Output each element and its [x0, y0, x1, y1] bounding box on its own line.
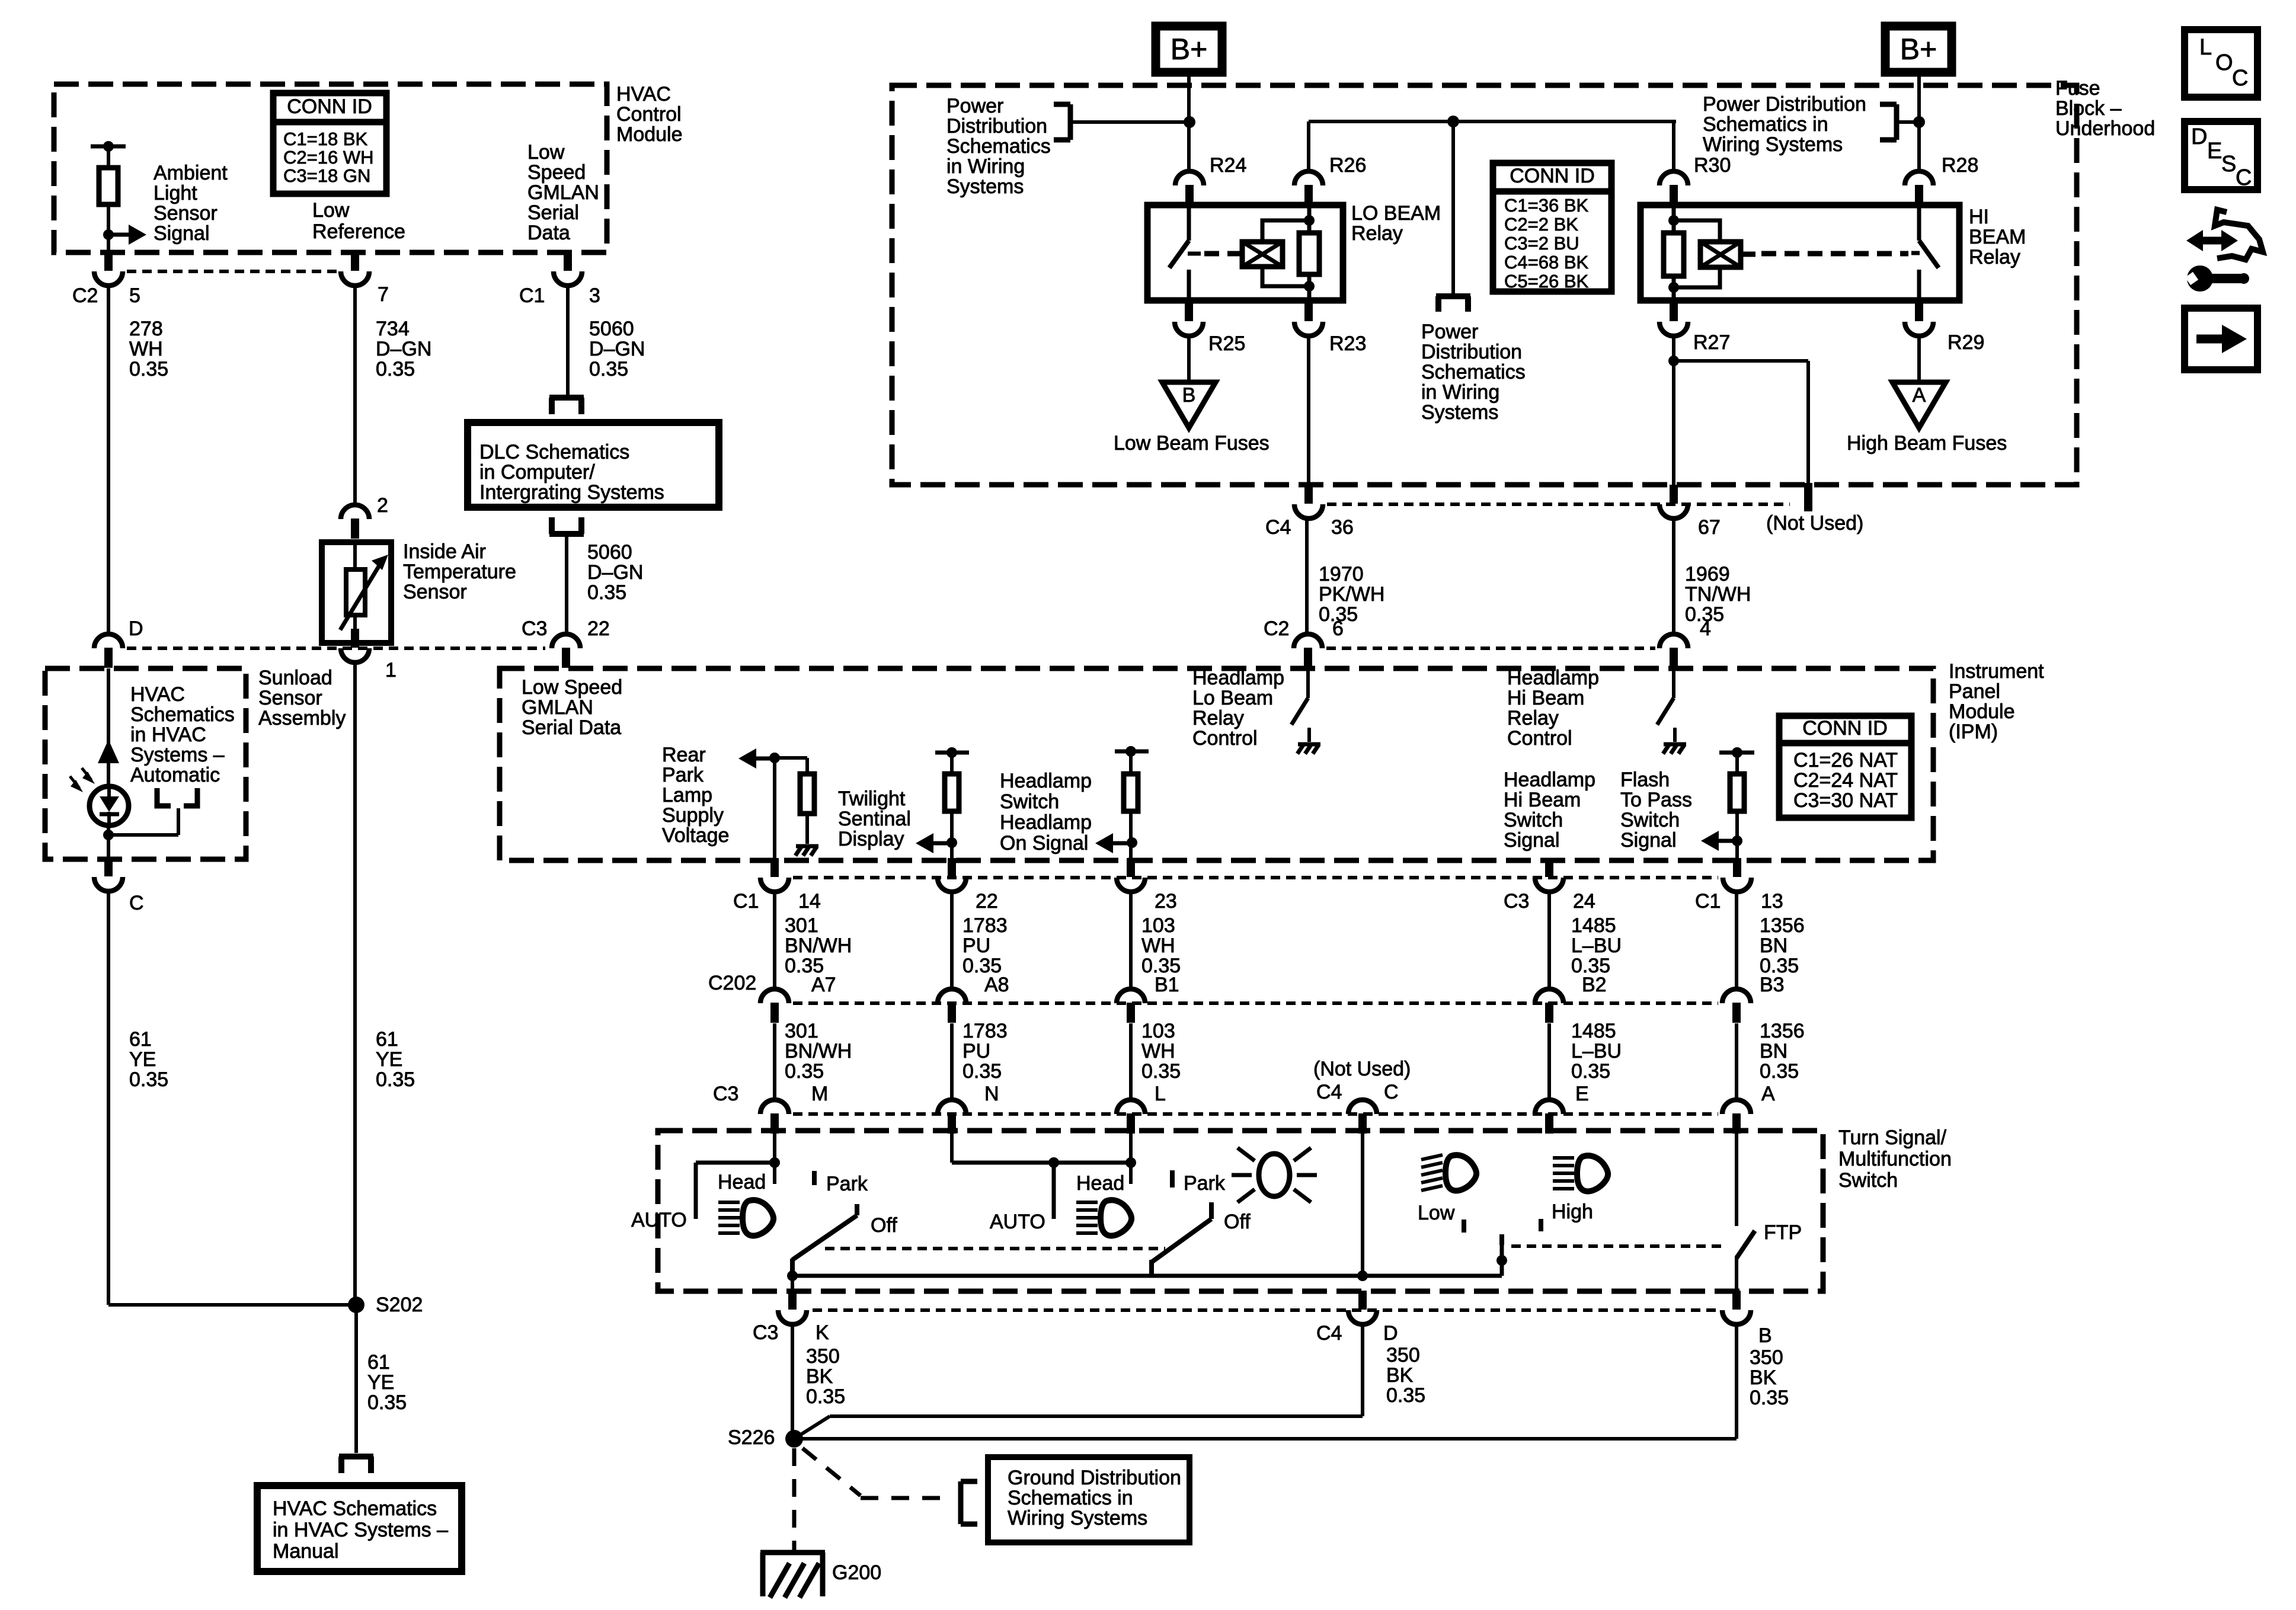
relay coil (lo beam) — [1242, 242, 1283, 267]
svg-text:61: 61 — [367, 1351, 390, 1374]
svg-text:B+: B+ — [1171, 33, 1208, 66]
wire label 1970 PK/WH 0.35 — [1319, 563, 1384, 626]
svg-text:C202: C202 — [708, 972, 756, 994]
hi beam relay control driver switch — [1657, 668, 1675, 742]
rear park lamp supply driver — [738, 748, 807, 774]
svg-text:350: 350 — [1386, 1344, 1420, 1366]
relay link dashed (lo beam) — [1204, 251, 1240, 257]
wire into C202 pin A7 — [773, 892, 776, 989]
label S202 — [376, 1294, 423, 1316]
wire branch to not-used stub — [1674, 361, 1808, 484]
svg-text:C: C — [2236, 165, 2252, 190]
label Head 1 — [718, 1171, 766, 1193]
label Headlamp Lo Beam Relay Control — [1192, 667, 1284, 750]
connector pin N (multifunction switch) — [938, 1100, 966, 1134]
svg-text:D–GN: D–GN — [587, 561, 643, 584]
node - hi beam coil top — [1668, 215, 1679, 226]
icon DESC box — [2185, 121, 2257, 190]
pin label L — [1155, 1083, 1166, 1105]
Park contact 2 — [1170, 1170, 1175, 1188]
AUTO contact 1 — [694, 1163, 698, 1219]
svg-text:Display: Display — [838, 828, 904, 850]
svg-text:C: C — [129, 892, 144, 914]
ground (hi beam relay control) — [1663, 744, 1686, 754]
low beam icon — [1421, 1155, 1476, 1190]
svg-text:L–BU: L–BU — [1571, 934, 1622, 957]
svg-text:BN: BN — [1760, 934, 1787, 957]
connector R25 — [1175, 302, 1203, 336]
svg-text:Switch: Switch — [1504, 809, 1563, 831]
svg-text:Data: Data — [527, 222, 570, 244]
svg-text:Instrument: Instrument — [1949, 660, 2044, 683]
node + arrow (headlamp on signal) — [1095, 833, 1137, 853]
connector pin 1 (inside air temp sensor) — [341, 629, 369, 662]
svg-text:WH: WH — [1141, 1040, 1175, 1062]
svg-text:D–GN: D–GN — [376, 338, 431, 360]
wire into C202 pin B3 — [1735, 892, 1738, 989]
pin labels C3 K — [753, 1321, 829, 1344]
svg-text:1485: 1485 — [1571, 1020, 1616, 1042]
svg-text:C3: C3 — [522, 617, 547, 640]
connector D (sunload sensor) — [94, 634, 123, 668]
svg-text:0.35: 0.35 — [1685, 603, 1724, 626]
svg-text:Block –: Block – — [2055, 97, 2122, 120]
pin label R27 — [1693, 331, 1730, 354]
wire label 301 BN/WH 0.35 (upper) — [785, 914, 852, 977]
svg-text:Schematics: Schematics — [946, 135, 1051, 158]
pin labels 14 — [733, 890, 821, 913]
wire 278 WH (C2-5 to sunload D) — [107, 286, 110, 634]
svg-text:Module: Module — [616, 123, 683, 146]
label C3 (switch) — [713, 1083, 738, 1105]
svg-text:FTP: FTP — [1764, 1221, 1802, 1244]
svg-text:C3: C3 — [753, 1321, 778, 1344]
svg-text:3: 3 — [589, 284, 600, 307]
pin label E — [1575, 1083, 1589, 1105]
wire label 278 WH 0.35 — [129, 318, 168, 380]
svg-text:C5=26 BK: C5=26 BK — [1504, 271, 1589, 292]
svg-text:R25: R25 — [1208, 332, 1245, 355]
svg-text:23: 23 — [1155, 890, 1177, 913]
svg-text:5060: 5060 — [587, 541, 632, 564]
svg-text:278: 278 — [129, 318, 163, 340]
HI BEAM Relay box — [1641, 205, 1959, 300]
svg-text:BK: BK — [1750, 1366, 1777, 1389]
svg-text:Twilight: Twilight — [838, 788, 906, 810]
label (Not Used) fuse block — [1766, 512, 1863, 534]
svg-text:C4=68 BK: C4=68 BK — [1504, 252, 1589, 273]
connector R23 — [1294, 302, 1323, 336]
node - R27 branch junction — [1668, 356, 1679, 366]
pin label R23 — [1329, 332, 1366, 355]
svg-text:S226: S226 — [728, 1426, 775, 1449]
svg-text:BK: BK — [806, 1365, 833, 1388]
wire into switch pin E — [1547, 1023, 1551, 1100]
svg-text:61: 61 — [129, 1028, 152, 1051]
lo beam relay control driver switch — [1291, 668, 1309, 742]
Turn Signal/Multifunction Switch dashed box — [658, 1131, 1823, 1291]
svg-text:Sunload: Sunload — [258, 667, 332, 689]
pin label D — [129, 617, 143, 640]
svg-text:G200: G200 — [832, 1561, 881, 1584]
Off switch blade 1 — [792, 1204, 857, 1260]
svg-text:O: O — [2215, 50, 2233, 75]
pin label R30 — [1694, 154, 1731, 177]
svg-text:High: High — [1552, 1201, 1593, 1223]
svg-text:Park: Park — [1184, 1172, 1226, 1195]
label Inside Air Temperature Sensor — [403, 540, 516, 603]
svg-text:L: L — [2199, 35, 2212, 60]
dashed wire S226 to ground distribution — [802, 1448, 944, 1498]
svg-text:0.35: 0.35 — [367, 1391, 407, 1414]
svg-text:A7: A7 — [811, 974, 836, 996]
svg-text:Schematics: Schematics — [130, 703, 235, 726]
HVAC Control Module dashed box — [54, 84, 607, 252]
ground G200 — [760, 1553, 825, 1598]
connector row line D-1-22 — [127, 646, 545, 650]
connector row line C2 (IPM top) — [1326, 646, 1655, 650]
svg-text:7: 7 — [378, 283, 389, 306]
label Instrument Panel Module (IPM) — [1949, 660, 2044, 743]
wire label 350 BK 0.35 (B) — [1750, 1346, 1789, 1409]
svg-text:Low Beam Fuses: Low Beam Fuses — [1114, 432, 1269, 454]
wire L into switch 2 — [1129, 1134, 1133, 1184]
Sunload Sensor Assembly dashed box — [45, 668, 246, 859]
connector pin 2 (inside air temp sensor) — [341, 505, 369, 539]
relay resistor (hi beam) — [1664, 205, 1684, 300]
svg-text:0.35: 0.35 — [1571, 1060, 1610, 1083]
svg-text:22: 22 — [587, 617, 610, 640]
pin label B1 — [1155, 974, 1179, 996]
svg-text:Systems: Systems — [1421, 401, 1498, 424]
bracket - to HVAC schematics manual — [339, 1457, 373, 1473]
svg-text:Underhood: Underhood — [2055, 117, 2155, 140]
label Low Beam Fuses — [1114, 432, 1269, 454]
svg-text:1783: 1783 — [962, 914, 1008, 937]
connector C202 pin B2 — [1535, 989, 1563, 1023]
wire label 1356 BN 0.35 (upper) — [1760, 914, 1805, 977]
svg-text:Power Distribution: Power Distribution — [1703, 93, 1866, 116]
svg-text:L: L — [1155, 1083, 1166, 1105]
svg-text:Low Speed: Low Speed — [522, 676, 622, 699]
svg-text:High Beam Fuses: High Beam Fuses — [1847, 432, 2007, 454]
svg-text:S202: S202 — [376, 1294, 423, 1316]
svg-text:Signal: Signal — [154, 222, 210, 245]
svg-text:Inside Air: Inside Air — [403, 540, 486, 563]
svg-text:61: 61 — [376, 1028, 398, 1051]
wire label 1485 L-BU 0.35 (upper) — [1571, 914, 1622, 977]
wire into photodiode with up arrow — [98, 668, 119, 788]
pin label 4 — [1700, 617, 1711, 640]
svg-text:103: 103 — [1141, 914, 1175, 937]
svg-text:Signal: Signal — [1504, 829, 1560, 852]
Off switch blade 2 — [1152, 1202, 1211, 1276]
wire into switch pin M — [773, 1023, 776, 1100]
wire label 1783 PU 0.35 (lower) — [962, 1020, 1008, 1083]
ground (lo beam relay control) — [1297, 744, 1320, 754]
label HI BEAM Relay — [1969, 206, 2026, 268]
wire B+ right to R28 — [1917, 72, 1921, 171]
node - B+ right junction — [1913, 116, 1925, 128]
Low contact tick — [1462, 1219, 1466, 1233]
svg-text:0.35: 0.35 — [962, 1060, 1002, 1083]
label Low Speed GMLAN Serial Data — [527, 141, 599, 244]
svg-text:Panel: Panel — [1949, 680, 2000, 703]
connector pin A (multifunction switch) — [1722, 1100, 1751, 1134]
pin label 67 — [1698, 516, 1721, 539]
pin label R25 — [1208, 332, 1245, 355]
svg-text:Switch: Switch — [1000, 790, 1059, 813]
svg-text:1356: 1356 — [1760, 1020, 1805, 1042]
connector pin 23 (IPM bottom) — [1117, 858, 1145, 892]
wire label 350 BK 0.35 (K) — [806, 1345, 845, 1408]
svg-text:Headlamp: Headlamp — [1000, 770, 1092, 792]
photodiode (sunload sensor) — [89, 786, 129, 825]
svg-text:R23: R23 — [1329, 332, 1366, 355]
CONN ID table (HVAC) — [273, 93, 386, 194]
label HVAC Schematics in HVAC Systems - Automatic — [130, 683, 235, 786]
connector C3 pin 22 (IPM) — [552, 634, 580, 668]
coil parallel loop (lo beam) — [1262, 220, 1309, 286]
svg-text:0.35: 0.35 — [587, 581, 626, 604]
svg-text:Relay: Relay — [1969, 246, 2020, 268]
svg-text:Sensor: Sensor — [154, 202, 218, 225]
svg-text:Relay: Relay — [1351, 222, 1403, 245]
coil parallel loop (hi beam) — [1674, 220, 1720, 287]
pin label A7 — [811, 974, 836, 996]
icon arrow box — [2185, 308, 2257, 370]
wire bracket to B+ right junction — [1897, 120, 1919, 124]
wire label 61 YE 0.35 (mid) — [376, 1028, 415, 1091]
splice S202 — [348, 1297, 364, 1313]
svg-text:0.35: 0.35 — [806, 1385, 845, 1408]
connector R29 — [1905, 302, 1933, 336]
svg-text:E: E — [2207, 139, 2222, 164]
svg-text:Head: Head — [718, 1171, 766, 1193]
wire R25 to low beam fuses — [1187, 336, 1191, 382]
arrow - Ambient Light Sensor Signal — [108, 225, 146, 245]
svg-text:K: K — [816, 1321, 829, 1344]
svg-text:D–GN: D–GN — [589, 338, 645, 360]
svg-text:PU: PU — [962, 934, 990, 957]
svg-text:0.35: 0.35 — [376, 1068, 415, 1091]
svg-text:L–BU: L–BU — [1571, 1040, 1622, 1062]
label Headlamp Hi Beam Switch Signal — [1504, 769, 1595, 852]
svg-text:Switch: Switch — [1620, 809, 1680, 831]
wire mid junction down to bracket — [1451, 121, 1455, 295]
icon wrench and arrows — [2185, 210, 2263, 292]
svg-text:Relay: Relay — [1507, 707, 1559, 729]
wire label 103 WH 0.35 (upper) — [1141, 914, 1181, 977]
wire into switch pin L — [1129, 1023, 1133, 1100]
wire into switch pin A — [1735, 1023, 1738, 1100]
pin label R28 — [1942, 154, 1978, 177]
wire label 1783 PU 0.35 (upper) — [962, 914, 1008, 977]
HVAC Schematics in HVAC Systems - Manual box — [257, 1486, 462, 1571]
not used stub (fuse block bottom) — [1804, 483, 1812, 511]
connector row line C3/C4 (switch bottom) — [813, 1308, 1718, 1312]
wire B to S226 — [794, 1324, 1737, 1439]
svg-text:Schematics: Schematics — [1421, 361, 1526, 383]
label G200 — [832, 1561, 881, 1584]
svg-text:C1=36 BK: C1=36 BK — [1504, 195, 1589, 216]
relay coil (hi beam) — [1700, 242, 1741, 267]
connector row line C2 (HVAC) — [127, 270, 339, 273]
headlamp-on signal column (pin 23) — [1115, 746, 1149, 774]
svg-text:301: 301 — [785, 914, 818, 937]
node C (not used) junction — [1357, 1134, 1368, 1281]
Park contact 1 — [812, 1171, 817, 1185]
wire label 61 YE 0.35 (left) — [129, 1028, 168, 1091]
svg-text:R27: R27 — [1693, 331, 1730, 354]
pin label R24 — [1210, 154, 1246, 177]
CONN ID table (IPM) — [1779, 716, 1911, 818]
pin label M — [811, 1083, 828, 1105]
pin label A8 — [984, 974, 1009, 996]
wire D to S226 — [794, 1324, 1363, 1439]
svg-text:2: 2 — [377, 494, 388, 517]
svg-text:To Pass: To Pass — [1620, 789, 1692, 811]
svg-text:1969: 1969 — [1685, 563, 1730, 585]
label Turn Signal/Multifunction Switch — [1838, 1126, 1952, 1192]
svg-text:AUTO: AUTO — [631, 1209, 687, 1231]
connector C4 pin C (not used) — [1348, 1100, 1377, 1134]
label Head 2 — [1076, 1172, 1124, 1195]
wire to FTP link — [1496, 1234, 1507, 1276]
label High Beam Fuses — [1847, 432, 2007, 454]
connector R24 — [1175, 171, 1204, 205]
svg-text:B2: B2 — [1582, 974, 1607, 996]
svg-text:103: 103 — [1141, 1020, 1175, 1042]
connector row line C1/C3 (IPM bottom) — [793, 876, 1718, 879]
pin label 7 — [378, 283, 389, 306]
wire label 1356 BN 0.35 (lower) — [1760, 1020, 1805, 1083]
svg-text:D: D — [129, 617, 143, 640]
svg-text:Distribution: Distribution — [1421, 341, 1522, 363]
label AUTO 1 — [631, 1209, 687, 1231]
svg-text:Schematics in: Schematics in — [1008, 1487, 1133, 1509]
thermistor symbol — [340, 542, 388, 643]
svg-text:C3: C3 — [1504, 890, 1529, 913]
CONN ID table (fuse block) — [1493, 163, 1611, 292]
svg-text:HVAC: HVAC — [130, 683, 185, 706]
svg-text:0.35: 0.35 — [589, 358, 628, 380]
svg-text:B3: B3 — [1760, 974, 1785, 996]
svg-text:C2=16 WH: C2=16 WH — [283, 147, 373, 168]
svg-text:BN/WH: BN/WH — [785, 934, 852, 957]
svg-text:13: 13 — [1761, 890, 1783, 913]
svg-text:YE: YE — [367, 1371, 394, 1394]
node - B+ left junction — [1184, 116, 1195, 128]
wire into C202 pin B1 — [1129, 892, 1133, 989]
wire into switch pin N — [950, 1023, 954, 1100]
svg-text:On Signal: On Signal — [1000, 832, 1088, 854]
svg-text:734: 734 — [376, 318, 410, 340]
svg-text:Intergrating Systems: Intergrating Systems — [479, 481, 664, 504]
svg-text:BEAM: BEAM — [1969, 226, 2026, 248]
label DLC Schematics in Computer/Intergrating Systems — [479, 441, 664, 504]
svg-text:Wiring Systems: Wiring Systems — [1703, 133, 1843, 156]
label Sunload Sensor Assembly — [258, 667, 346, 729]
head icon 2 — [1076, 1200, 1131, 1235]
svg-text:Power: Power — [1421, 321, 1478, 343]
wire rear park lamp to C1-14 — [773, 758, 776, 860]
svg-text:Power: Power — [946, 95, 1003, 117]
svg-text:BK: BK — [1386, 1364, 1414, 1387]
svg-text:(Not Used): (Not Used) — [1313, 1058, 1411, 1080]
bracket - to DLC schematics (top) — [549, 398, 584, 414]
label Rear Park Lamp Supply Voltage — [662, 744, 729, 847]
wire 5060 D-GN (DLC to C3-22) — [565, 534, 568, 634]
twilight sentinel column (pin 22) — [935, 747, 969, 774]
connector C202 pin B3 — [1722, 989, 1751, 1023]
wire 61 YE (pin1 to S202) — [353, 662, 357, 1305]
connector row line C202 — [793, 1001, 1718, 1005]
wire label 5060 D-GN 0.35 (lower) — [587, 541, 643, 604]
svg-text:C3=30 NAT: C3=30 NAT — [1793, 789, 1898, 812]
svg-text:R26: R26 — [1329, 154, 1366, 177]
label Twilight Sentinal Display — [838, 788, 911, 850]
pin label A — [1761, 1083, 1775, 1105]
svg-text:Control: Control — [1192, 727, 1258, 750]
pin label 2 — [377, 494, 388, 517]
label HVAC Schematics in HVAC Systems - Manual — [273, 1497, 448, 1563]
relay link dashed (hi beam) — [1741, 254, 1908, 254]
svg-text:Light: Light — [154, 182, 197, 204]
svg-text:Sentinal: Sentinal — [838, 808, 911, 830]
label Park 2 — [1184, 1172, 1226, 1195]
high beam icon — [1553, 1156, 1608, 1191]
resistor (headlamp on signal) — [1124, 774, 1138, 811]
svg-text:in Wiring: in Wiring — [946, 155, 1025, 178]
pin labels 23 — [1155, 890, 1177, 913]
svg-text:A: A — [1761, 1083, 1775, 1105]
Instrument Panel Module dashed box — [500, 668, 1933, 860]
ambient light sensor resistor R (photocell) — [91, 141, 126, 252]
wire R23 down to C4-36 — [1307, 336, 1310, 485]
mechanical link dotted (FTP) — [1511, 1244, 1727, 1248]
svg-text:Control: Control — [1507, 727, 1572, 750]
svg-text:A: A — [1913, 384, 1926, 406]
svg-text:Switch: Switch — [1838, 1169, 1898, 1192]
bracket - power distribution (middle) — [1436, 296, 1470, 312]
svg-text:A8: A8 — [984, 974, 1009, 996]
svg-text:R29: R29 — [1948, 331, 1984, 354]
svg-text:WH: WH — [129, 338, 163, 360]
svg-text:C4: C4 — [1265, 516, 1291, 539]
label Low Speed GMLAN Serial Data (IPM) — [522, 676, 622, 739]
wire R27 down with branch — [1672, 336, 1675, 485]
svg-text:CONN ID: CONN ID — [287, 95, 372, 118]
svg-text:14: 14 — [798, 890, 821, 913]
pin label R29 — [1948, 331, 1984, 354]
head icon 1 — [718, 1200, 773, 1235]
svg-text:Relay: Relay — [1192, 707, 1244, 729]
DLC Schematics box — [468, 422, 719, 507]
svg-text:Distribution: Distribution — [946, 115, 1047, 137]
connector C202 pin A8 — [938, 989, 966, 1023]
svg-text:Systems –: Systems – — [130, 744, 225, 766]
svg-text:LO BEAM: LO BEAM — [1351, 202, 1441, 225]
svg-text:0.35: 0.35 — [1141, 1060, 1181, 1083]
svg-text:1485: 1485 — [1571, 914, 1616, 937]
label FTP — [1764, 1221, 1802, 1244]
dashed wire S226 to G200 — [792, 1448, 797, 1550]
connector C2 pin 6 (IPM) — [1294, 634, 1322, 668]
label Off 1 — [871, 1214, 897, 1237]
pin labels C2 5 — [72, 284, 140, 307]
pin label B2 — [1582, 974, 1607, 996]
